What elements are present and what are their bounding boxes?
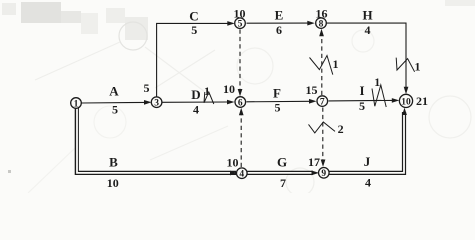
svg-text:10: 10: [223, 82, 235, 96]
node 10: [399, 94, 412, 107]
svg-text:6: 6: [238, 98, 243, 108]
svg-text:5: 5: [112, 103, 118, 117]
activity I arrow (7→10): [329, 98, 400, 103]
ghost diagonal lines: [35, 42, 215, 92]
svg-text:5: 5: [359, 99, 365, 113]
svg-text:10: 10: [107, 176, 119, 190]
svg-text:5: 5: [144, 81, 150, 95]
dummy arrow 7→9 (dashed): [321, 108, 326, 167]
svg-text:E: E: [275, 8, 284, 23]
svg-text:5: 5: [238, 20, 243, 30]
svg-text:1: 1: [415, 60, 421, 74]
svg-text:10: 10: [234, 7, 246, 21]
svg-text:4: 4: [365, 23, 371, 37]
node 7: [317, 96, 328, 108]
ghost bleed-through circle top-left: [119, 22, 147, 50]
svg-text:10: 10: [227, 156, 239, 170]
svg-text:7: 7: [280, 176, 286, 190]
svg-text:I: I: [359, 83, 364, 98]
svg-text:9: 9: [321, 169, 326, 179]
svg-text:8: 8: [319, 20, 324, 30]
svg-text:1: 1: [204, 84, 210, 98]
activity D arrow (3→6): [162, 100, 235, 105]
svg-text:B: B: [109, 155, 118, 170]
svg-text:J: J: [364, 154, 371, 169]
activity J critical double line (9→10): [329, 108, 407, 173]
svg-text:C: C: [189, 9, 198, 24]
activity A arrow (1→3): [82, 100, 152, 105]
dummy arrow 7→8 (dashed): [319, 29, 324, 95]
dummy arrow 4→6 (dashed): [239, 108, 244, 167]
activity B critical double line (1→4): [77, 107, 238, 175]
node 4: [237, 168, 248, 180]
svg-text:4: 4: [365, 176, 371, 190]
svg-text:1: 1: [74, 99, 79, 109]
svg-text:3: 3: [154, 99, 159, 109]
svg-text:1: 1: [333, 57, 339, 71]
scan texture patches top-left: [2, 0, 475, 173]
svg-text:17: 17: [308, 155, 320, 169]
dummy arrow 5→6 (dashed): [238, 30, 243, 97]
svg-text:6: 6: [276, 23, 282, 37]
activity C arrow (3→5): [157, 21, 235, 97]
svg-text:A: A: [109, 84, 119, 99]
node 1: [71, 98, 82, 110]
free float break on H: [396, 58, 414, 72]
activity E arrow (5→8): [247, 21, 315, 26]
svg-text:D: D: [191, 87, 200, 102]
node 8: [316, 18, 327, 30]
node 9: [319, 168, 330, 180]
node 5: [235, 18, 246, 30]
svg-text:1: 1: [374, 75, 380, 89]
svg-text:4: 4: [193, 103, 199, 117]
ghost circle right: [429, 96, 471, 138]
svg-text:H: H: [362, 8, 372, 23]
svg-text:15: 15: [306, 83, 318, 97]
svg-text:16: 16: [316, 6, 328, 20]
svg-text:4: 4: [239, 170, 244, 180]
free float break on D: [204, 92, 214, 104]
svg-text:2: 2: [338, 122, 344, 136]
svg-text:10: 10: [401, 97, 411, 107]
free float break on dummy 7→8: [310, 56, 333, 75]
free float break on dummy 7→9: [309, 122, 336, 133]
node 6: [235, 97, 246, 109]
svg-text:F: F: [273, 86, 281, 101]
node 3: [151, 97, 162, 109]
svg-text:5: 5: [275, 101, 281, 115]
activity F arrow (6→7): [247, 99, 317, 104]
svg-text:5: 5: [191, 23, 197, 37]
svg-text:21: 21: [416, 94, 428, 108]
svg-text:7: 7: [320, 98, 325, 108]
activity H arrow (8→10): [327, 23, 409, 94]
free float break on I: [372, 85, 386, 107]
svg-text:G: G: [277, 154, 287, 169]
activity G critical double line (4→9): [247, 171, 319, 176]
